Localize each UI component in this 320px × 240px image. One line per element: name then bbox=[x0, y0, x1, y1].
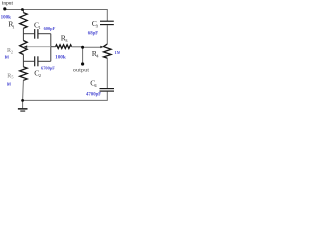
svg-text:1M: 1M bbox=[115, 50, 121, 55]
svg-text:1: 1 bbox=[12, 25, 14, 30]
svg-text:output: output bbox=[73, 68, 89, 74]
svg-text:1M: 1M bbox=[4, 54, 9, 59]
svg-text:1M: 1M bbox=[7, 82, 11, 87]
svg-text:68pF: 68pF bbox=[88, 31, 98, 36]
svg-text:input: input bbox=[2, 0, 14, 6]
svg-text:2: 2 bbox=[11, 50, 13, 55]
svg-text:6700pF: 6700pF bbox=[41, 66, 55, 71]
svg-text:1: 1 bbox=[39, 25, 41, 30]
svg-text:2: 2 bbox=[39, 73, 41, 78]
svg-text:100k: 100k bbox=[1, 16, 12, 21]
svg-text:3: 3 bbox=[96, 24, 99, 29]
svg-text:5: 5 bbox=[11, 75, 13, 80]
svg-text:100k: 100k bbox=[55, 55, 66, 61]
svg-text:600pF: 600pF bbox=[44, 26, 56, 31]
svg-text:3: 3 bbox=[65, 38, 68, 43]
svg-text:4: 4 bbox=[96, 54, 99, 59]
svg-text:4700pF: 4700pF bbox=[86, 92, 101, 97]
svg-text:4: 4 bbox=[94, 83, 97, 88]
